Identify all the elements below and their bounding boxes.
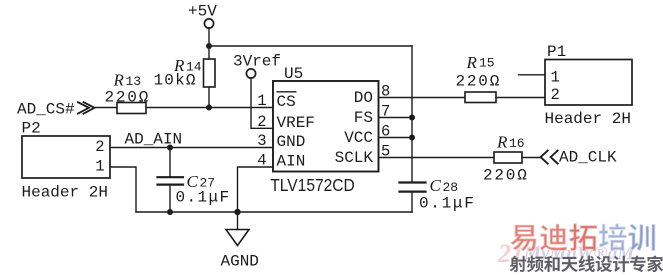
svg-text:3Vref: 3Vref bbox=[233, 53, 281, 71]
svg-text:C: C bbox=[430, 176, 442, 195]
watermark title 易迪拓培训 bbox=[510, 225, 536, 252]
svg-text:R: R bbox=[466, 53, 478, 72]
capacitor C27 plates bbox=[158, 176, 184, 178]
node FS junction bbox=[409, 115, 415, 121]
svg-text:1: 1 bbox=[257, 92, 266, 110]
svg-text:16: 16 bbox=[509, 136, 525, 151]
watermark slogan 射频和天线设计专家 bbox=[510, 256, 526, 272]
svg-text:AD_CS#: AD_CS# bbox=[17, 101, 75, 119]
resistor R16 body bbox=[494, 152, 522, 163]
wire 3Vref to pin 2 bbox=[251, 78, 273, 129]
svg-text:Header 2H: Header 2H bbox=[22, 184, 108, 202]
wire pin 6 VCC to +5V drop bbox=[379, 137, 413, 139]
svg-text:AD_AIN: AD_AIN bbox=[125, 131, 183, 149]
wire pin 4 AIN down to ground rail bbox=[238, 167, 274, 212]
svg-text:AD_CLK: AD_CLK bbox=[559, 149, 617, 167]
wire P2 pin2 AD_AIN to pin 3 bbox=[110, 147, 273, 149]
svg-text:4: 4 bbox=[257, 152, 266, 170]
svg-text:+5V: +5V bbox=[188, 3, 217, 21]
ground AGND symbol bbox=[226, 230, 249, 246]
svg-text:2: 2 bbox=[551, 86, 560, 104]
wire +5V lead down bbox=[208, 28, 210, 46]
wire pin 7 FS to +5V drop bbox=[379, 117, 413, 119]
node C27 / AD_AIN junction bbox=[167, 145, 173, 151]
wire R14 top lead bbox=[208, 46, 210, 59]
svg-text:GND: GND bbox=[277, 133, 306, 151]
svg-text:AIN: AIN bbox=[277, 153, 306, 171]
port 3Vref symbol bbox=[246, 69, 255, 78]
svg-text:R: R bbox=[113, 71, 125, 90]
wire +5V drop to VCC and C28 bbox=[411, 46, 413, 182]
svg-text:U5: U5 bbox=[284, 65, 303, 83]
resistor R13 body bbox=[117, 103, 146, 114]
svg-text:CS: CS bbox=[277, 93, 296, 111]
node +5V rail junction bbox=[206, 43, 212, 49]
port arrow AD_CS# chevrons bbox=[78, 102, 94, 113]
op-amp U5 chip body bbox=[273, 81, 379, 172]
svg-text:1: 1 bbox=[551, 69, 560, 87]
svg-text:P2: P2 bbox=[22, 120, 41, 138]
svg-text:P1: P1 bbox=[547, 43, 566, 61]
wire AD_CS# to R13 bbox=[94, 107, 117, 109]
resistor R14 body bbox=[204, 59, 216, 87]
svg-text:220Ω: 220Ω bbox=[483, 167, 529, 185]
node R14 / AD_CS junction bbox=[206, 105, 212, 111]
svg-text:R: R bbox=[496, 133, 508, 152]
svg-text:5: 5 bbox=[381, 143, 390, 161]
svg-text:6: 6 bbox=[381, 123, 390, 141]
svg-text:VCC: VCC bbox=[344, 129, 373, 147]
wire +5V rail to right bbox=[209, 45, 412, 47]
svg-text:7: 7 bbox=[381, 103, 390, 121]
wire P2 pin1 down to ground rail bbox=[110, 167, 136, 212]
wire ground rail bbox=[136, 211, 412, 213]
svg-text:FS: FS bbox=[354, 109, 373, 127]
node VCC junction bbox=[409, 135, 415, 141]
svg-text:13: 13 bbox=[126, 74, 142, 89]
connector P1 body bbox=[545, 60, 632, 106]
wire pin 8 DO to R15 bbox=[379, 97, 466, 99]
wire R15 to P1 pin 2 bbox=[496, 97, 545, 99]
svg-text:Header 2H: Header 2H bbox=[545, 110, 631, 128]
svg-text:15: 15 bbox=[479, 56, 495, 71]
svg-text:3: 3 bbox=[257, 132, 266, 150]
node C27 ground junction bbox=[167, 209, 173, 215]
wire AGND lead bbox=[237, 212, 239, 230]
svg-text:0.1μF: 0.1μF bbox=[176, 189, 231, 207]
svg-text:28: 28 bbox=[443, 180, 459, 195]
wire pin 5 SCLK to R16 bbox=[379, 157, 495, 159]
svg-text:TLV1572CD: TLV1572CD bbox=[270, 175, 355, 195]
wire C27 top lead bbox=[169, 148, 171, 177]
svg-text:AGND: AGND bbox=[221, 253, 259, 271]
node AGND junction bbox=[234, 209, 240, 215]
wire C28 bottom lead bbox=[411, 193, 413, 212]
svg-text:1: 1 bbox=[95, 158, 104, 176]
svg-text:VREF: VREF bbox=[277, 114, 315, 132]
wire R13 to pin 1 bbox=[146, 107, 273, 109]
svg-text:8: 8 bbox=[381, 83, 390, 101]
connector P2 body bbox=[22, 136, 110, 178]
capacitor C28 plates bbox=[400, 181, 426, 183]
svg-text:10kΩ: 10kΩ bbox=[154, 72, 197, 90]
svg-text:220Ω: 220Ω bbox=[456, 73, 502, 91]
svg-text:2: 2 bbox=[95, 138, 104, 156]
svg-text:DO: DO bbox=[354, 89, 373, 107]
wire R14 bottom lead bbox=[208, 87, 210, 108]
svg-text:0.1μF: 0.1μF bbox=[419, 195, 476, 213]
svg-text:SCLK: SCLK bbox=[335, 149, 374, 167]
svg-text:220Ω: 220Ω bbox=[105, 89, 151, 107]
resistor R15 body bbox=[465, 92, 496, 103]
svg-text:2: 2 bbox=[257, 113, 266, 131]
wire P1 pin 1 stub bbox=[519, 74, 546, 76]
wire R16 to AD_CLK port bbox=[522, 157, 541, 159]
port arrow AD_CLK chevrons bbox=[541, 151, 558, 164]
wire C27 bottom lead bbox=[169, 186, 171, 212]
power +5V symbol bbox=[204, 19, 213, 28]
